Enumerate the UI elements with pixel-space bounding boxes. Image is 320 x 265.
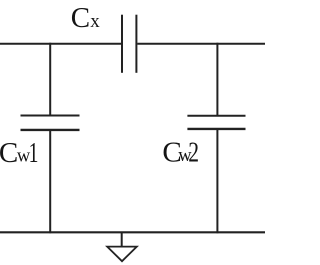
svg-text:x: x xyxy=(90,11,100,32)
wire top rail right segment xyxy=(137,43,265,45)
label Cx xyxy=(71,2,101,34)
wire left branch lower xyxy=(49,130,51,233)
svg-text:C: C xyxy=(71,2,90,34)
wire right branch upper xyxy=(216,43,218,116)
wire left branch upper xyxy=(49,43,51,116)
wire top rail left segment xyxy=(0,43,121,45)
wire bottom rail xyxy=(0,231,265,233)
capacitor Cw1 xyxy=(21,116,80,130)
svg-text:2: 2 xyxy=(188,137,199,169)
ground xyxy=(107,232,137,261)
capacitor Cw2 xyxy=(187,116,245,129)
label Cw1 xyxy=(0,137,38,169)
label Cw2 xyxy=(162,137,199,169)
wire right branch lower xyxy=(216,129,218,233)
svg-text:C: C xyxy=(0,137,18,169)
svg-text:1: 1 xyxy=(29,137,39,169)
capacitor Cx xyxy=(122,15,136,73)
